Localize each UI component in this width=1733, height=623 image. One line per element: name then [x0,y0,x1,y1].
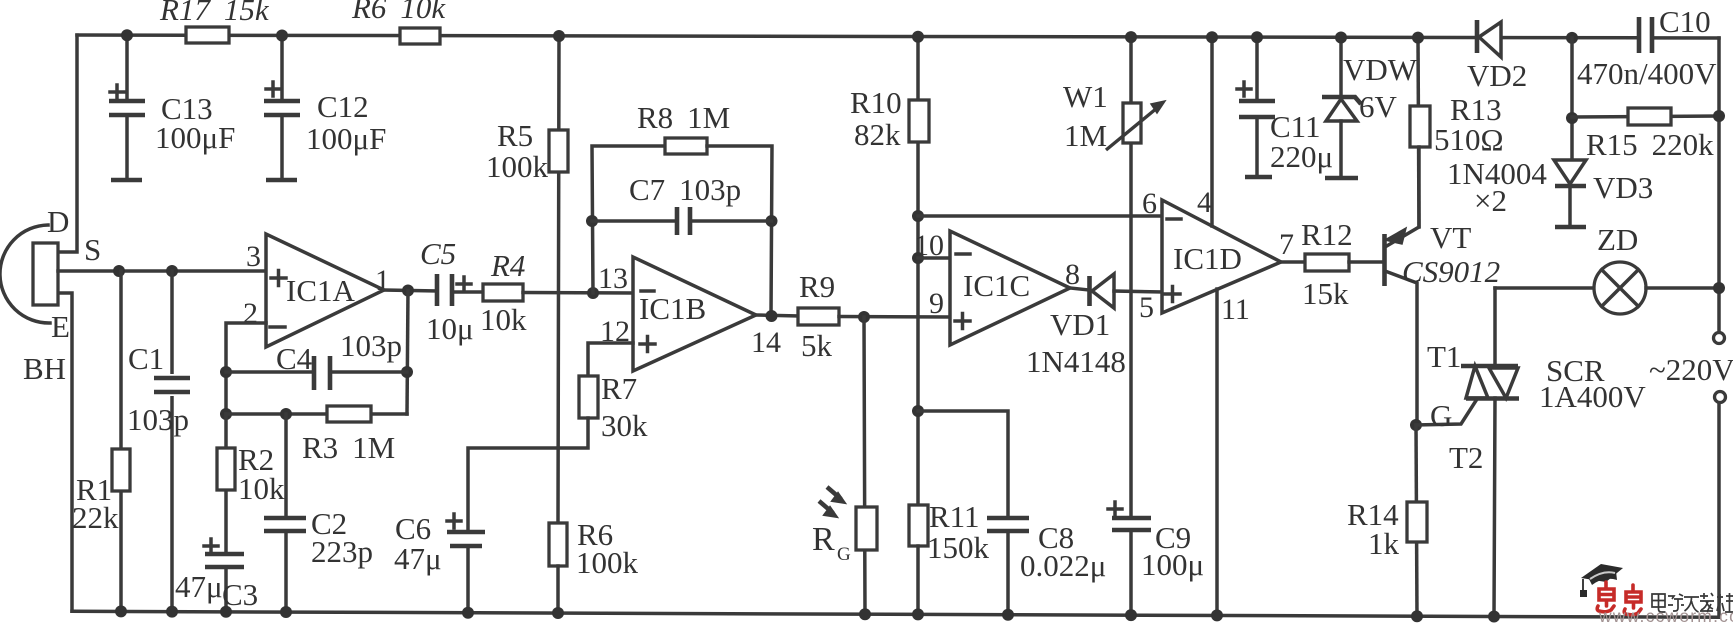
svg-text:IC1C: IC1C [963,268,1030,303]
svg-text:4: 4 [1197,186,1212,219]
svg-text:S: S [84,232,101,267]
node: C12 at top rail [276,30,288,42]
wire: top supply rail [77,35,1639,38]
svg-text:82k: 82k [854,117,901,152]
resistor R15 [1628,108,1671,125]
photoresistor RG [856,507,877,550]
svg-text:220μ: 220μ [1270,139,1333,174]
node: pin4 at top rail [1206,31,1218,43]
resistor R1 [112,449,130,491]
resistor R6 top (in top rail) [400,28,440,44]
node: C13 at top rail [121,29,133,41]
svg-text:IC1A: IC1A [286,273,356,308]
svg-text:10: 10 [914,229,944,262]
capacitor C3 (electrolytic) [204,539,244,612]
wire: R8 right to feedback right leg [707,146,772,316]
svg-text:IC1D: IC1D [1173,241,1242,276]
svg-text:47μ: 47μ [394,541,442,576]
svg-text:100k: 100k [486,149,549,184]
svg-text:ZD: ZD [1597,222,1638,257]
wire: C5 to R4 [452,290,483,294]
svg-text:VD1: VD1 [1050,307,1110,342]
node: C2 at ground rail [280,606,292,618]
svg-text:W1: W1 [1063,79,1108,114]
node: C3 at ground rail [220,606,232,618]
svg-text:100μF: 100μF [306,121,386,156]
svg-text:510Ω: 510Ω [1434,122,1504,157]
svg-text:R15 220k: R15 220k [1586,127,1714,162]
resistor R2 [217,448,235,490]
node: R13 at top rail [1412,32,1424,44]
node: C7 right junction [766,215,778,227]
svg-text:C10: C10 [1659,4,1711,39]
wire: IC1B pin12 to R7 [588,343,633,376]
diode VD1 [1090,274,1115,308]
transistor VT (PNP CS9012) [1385,147,1420,425]
node: C8 at ground rail [1002,609,1014,621]
wire: R10/R11 column [916,37,920,505]
resistor R3 [327,406,371,422]
node: R14 at ground rail [1411,610,1423,622]
svg-text:10μ: 10μ [426,311,474,346]
node: pin6 wire junction [912,210,924,222]
node: S-R1 junction [113,265,125,277]
node: C4 right junction [401,366,413,378]
wire: R4 to IC1B pin13 [523,291,633,295]
svg-text:5: 5 [1139,291,1154,324]
wire: S terminal to IC1A pin3 [58,269,266,273]
svg-text:100μ: 100μ [1141,547,1204,582]
node: lamp at right edge [1713,282,1725,294]
svg-text:3: 3 [246,240,261,273]
wire: R5/R6 divider column [558,36,559,523]
resistor R6 bottom [549,523,567,566]
resistor R10 [909,100,929,142]
wire: R15 row [1572,116,1719,117]
svg-text:C5: C5 [420,236,456,271]
node: C11 at top rail [1251,31,1263,43]
svg-text:R11: R11 [929,499,980,534]
light arrows at RG [819,487,845,517]
capacitor C12 (electrolytic, from top rail) [264,36,300,181]
svg-text:CS9012: CS9012 [1402,254,1500,289]
svg-text:R17 15k: R17 15k [159,0,270,27]
svg-text:R6 10k: R6 10k [351,0,446,25]
triac SCR [1416,288,1519,617]
node: S-C1 junction [166,265,178,277]
wire: R3 row [226,412,407,416]
wire: C8 branch jog [918,411,1008,518]
op-amp IC1A [266,234,384,347]
capacitor C11 (electrolytic, from top rail) [1237,37,1275,177]
resistor R17 (in top rail) [186,27,229,43]
wire: right edge from top corner down to upper AC terminal [1717,38,1721,331]
svg-text:E: E [51,309,70,344]
node: pin11 at ground rail [1211,609,1223,621]
svg-text:103p: 103p [340,328,402,363]
node: C1 at ground rail [166,606,178,618]
node: RG junction [858,311,870,323]
svg-text:1k: 1k [1368,526,1400,561]
lamp ZD [1594,262,1646,314]
resistor R13 [1410,106,1430,147]
capacitor C7 [677,207,690,235]
svg-text:VD2: VD2 [1467,58,1527,93]
resistor R8 [665,138,707,154]
svg-text:1M: 1M [1064,118,1107,153]
diode VD3 [1554,160,1586,227]
watermark: chongchong red glyphs [1597,582,1641,615]
resistor R7 [579,376,598,418]
svg-text:13: 13 [598,262,628,295]
wire: R12 to VT base [1349,260,1384,264]
wire: IC1A output [384,290,437,291]
node: R15 at right edge [1713,110,1725,122]
wire: triac to lamp [1495,286,1594,290]
svg-text:7: 7 [1279,228,1294,261]
node: C9 at ground rail [1125,609,1137,621]
capacitor C5 (series, electrolytic) [437,274,471,306]
op-amp IC1B [633,257,756,371]
wire: C4 row [226,370,407,374]
node: R5 at top rail [553,30,565,42]
node: R10 at top rail [912,31,924,43]
wire: R14 branch [1416,425,1417,616]
svg-text:1: 1 [375,264,390,297]
svg-text:150k: 150k [927,530,990,565]
wire: R7 bottom to bias node and C6 [468,418,588,532]
node: T2 at ground rail [1488,611,1500,623]
svg-text:R5: R5 [497,118,533,153]
node: C6 at ground rail [462,607,474,619]
wire: R13 column [1418,38,1419,227]
wire: VD3 column upper [1570,38,1574,158]
resistor R4 [483,284,523,301]
capacitor C6 (electrolytic) [447,514,485,613]
svg-text:100k: 100k [576,545,639,580]
svg-text:C7 103p: C7 103p [629,172,741,207]
svg-text:www.ccworm.com: www.ccworm.com [1598,606,1733,623]
svg-text:R7: R7 [601,371,637,406]
wire: feedback right leg (output down to C4/R3 rows) [407,291,408,415]
svg-text:22k: 22k [72,500,119,535]
node: W1 at top rail [1125,31,1137,43]
wire: IC1D pin11 to ground rail [1215,289,1219,615]
node: pin10 junction [912,252,924,264]
svg-text:0.022μ: 0.022μ [1020,548,1106,583]
node: R3/R2 left junction [220,408,232,420]
svg-text:1N4148: 1N4148 [1026,344,1126,379]
wire: IC1C output to VD1 [1070,288,1089,290]
node: C2 top junction [280,408,292,420]
zener VDW 6V [1322,38,1361,179]
svg-text:10k: 10k [238,471,285,506]
svg-text:T1: T1 [1427,339,1461,374]
svg-text:R: R [812,521,835,558]
node: R1 at ground rail [115,605,127,617]
wire: bottom ground rail [72,611,1719,617]
svg-text:100μF: 100μF [155,120,235,155]
wire: C1 branch [170,271,174,612]
svg-text:VT: VT [1430,220,1471,255]
wire: left vertical from top rail to D terminal [58,35,77,252]
svg-text:BH: BH [23,351,66,386]
resistor R5 [549,130,568,172]
op-amp IC1D [1162,200,1281,313]
svg-text:2: 2 [243,297,258,330]
node: C7 left junction [586,215,598,227]
diode VD2 (in top rail) [1477,20,1501,57]
svg-text:C12: C12 [317,89,369,124]
svg-text:9: 9 [929,287,944,320]
svg-text:11: 11 [1221,293,1250,326]
resistor R12 [1305,254,1349,271]
svg-text:T2: T2 [1449,440,1483,475]
wire: W1/C9 timing column [1129,37,1133,518]
wire: IC1D output to R12 [1281,260,1305,264]
node: pin13 junction [587,287,599,299]
svg-text:8: 8 [1065,258,1080,291]
svg-text:R4: R4 [490,248,525,283]
node: gate junction [1410,419,1422,431]
svg-text:C1: C1 [128,341,164,376]
terminal: AC upper [1714,333,1725,344]
svg-text:×2: ×2 [1474,183,1507,218]
wire: lamp to right edge [1646,286,1719,290]
node: IC1A output junction [402,285,414,297]
node: VD3/R15 at top rail [1566,32,1578,44]
wire: IC1D pin4 supply [1210,37,1214,226]
watermark: graduation cap icon [1580,564,1623,597]
svg-text:470n/400V: 470n/400V [1577,56,1717,91]
wire: pin10 stub [918,256,950,260]
svg-text:IC1B: IC1B [639,291,706,326]
node: VDW at top rail [1335,32,1347,44]
wire: top rail right of C10 [1652,36,1719,40]
svg-text:R9: R9 [799,269,835,304]
wire: RG branch [864,317,865,614]
op-amp IC1C [950,231,1070,345]
wire: R1 branch [119,271,123,611]
node: R15 junction [1566,112,1578,124]
wire: right edge from lower AC terminal to bottom corner [1717,403,1721,617]
node: R6 at ground rail [552,607,564,619]
svg-text:5k: 5k [801,328,833,363]
wire: IC1B output to R9 [756,315,798,316]
svg-text:D: D [47,204,69,239]
wire: IC1D pin6 wire [918,214,1162,218]
node: RG at ground rail [859,608,871,620]
svg-text:223p: 223p [311,534,373,569]
node: R11/C8 junction [912,405,924,417]
capacitor C1 [152,374,192,396]
sensor BH body [0,225,58,323]
resistor R14 [1407,502,1427,542]
capacitor C8 [987,518,1029,615]
capacitor C9 (electrolytic) [1108,502,1151,615]
svg-text:15k: 15k [1302,276,1349,311]
svg-text:VDW: VDW [1343,52,1418,87]
svg-text:R8 1M: R8 1M [637,100,730,135]
wire: R8/C7 feedback left leg [592,146,665,293]
watermark: gray site name [1652,593,1733,612]
svg-text:R12: R12 [1301,217,1353,252]
wire: IC1A pin2 to feedback column [226,323,266,414]
node: C4 left junction [220,366,232,378]
wire: R2/C3 branch below pin2 column [224,414,228,554]
svg-text:103p: 103p [127,402,189,437]
node: pin14 junction [766,310,778,322]
terminal: AC lower [1715,392,1726,403]
svg-text:1A400V: 1A400V [1539,379,1646,414]
capacitor C13 (electrolytic, from top rail) [109,35,145,180]
capacitor C4 [314,356,330,390]
wire: R6 to ground rail [556,566,560,613]
wire: R11 to ground rail [916,546,920,614]
wire: E terminal to bottom-left corner [58,293,72,611]
svg-text:10k: 10k [480,302,527,337]
svg-text:6: 6 [1142,187,1157,220]
wire: C7 row [592,219,772,223]
svg-text:6V: 6V [1359,89,1398,124]
node: R11 at ground rail [912,608,924,620]
svg-text:VD3: VD3 [1593,170,1653,205]
svg-text:14: 14 [751,326,781,359]
resistor R11 [909,505,928,546]
svg-text:C4: C4 [276,341,313,376]
potentiometer W1 [1106,101,1165,150]
capacitor C2 [264,518,306,612]
svg-text:~220V: ~220V [1649,352,1733,387]
svg-text:47μ: 47μ [175,569,223,604]
svg-text:R3 1M: R3 1M [302,430,395,465]
resistor R9 [798,308,839,325]
svg-text:30k: 30k [601,408,648,443]
svg-text:G: G [837,544,851,565]
capacitor C10 (in top rail) [1639,17,1652,53]
wire: VD1 to IC1D pin5 [1114,291,1162,292]
svg-text:G: G [1430,398,1452,433]
svg-text:R10: R10 [850,85,902,120]
wire: C2 branch [284,414,288,518]
wire: R9 to IC1C pin9 [839,315,950,319]
